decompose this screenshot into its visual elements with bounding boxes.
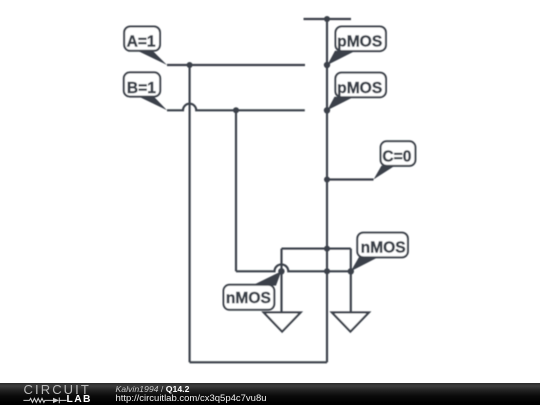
svg-text:A=1: A=1 bbox=[127, 34, 156, 51]
svg-text:pMOS: pMOS bbox=[337, 80, 382, 97]
svg-text:B=1: B=1 bbox=[127, 80, 156, 97]
svg-text:nMOS: nMOS bbox=[361, 239, 406, 256]
svg-text:C=0: C=0 bbox=[382, 148, 411, 165]
svg-text:pMOS: pMOS bbox=[337, 33, 382, 50]
svg-text:nMOS: nMOS bbox=[226, 290, 271, 307]
